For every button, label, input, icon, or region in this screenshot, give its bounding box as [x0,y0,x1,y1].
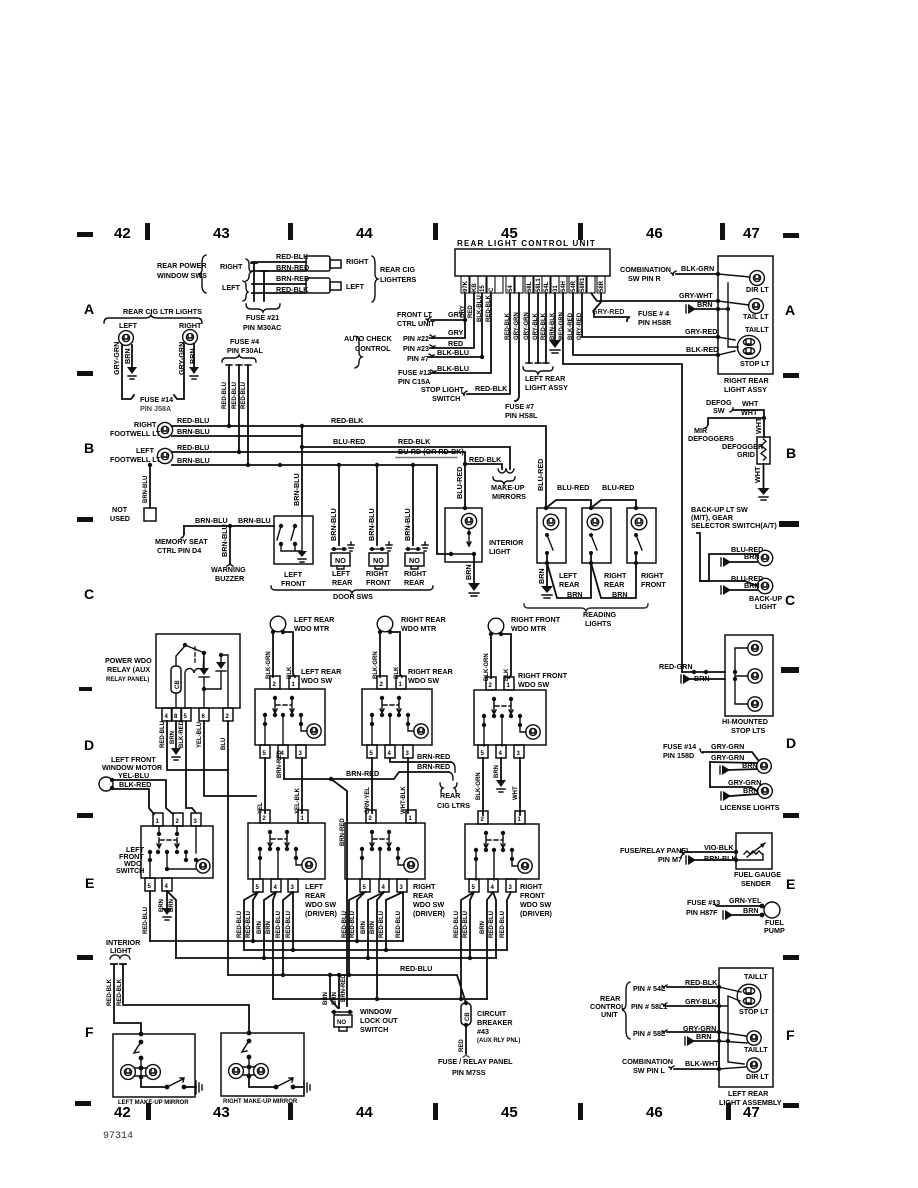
wire BRN-RED LR pin4 [283,758,285,779]
svg-text:46: 46 [646,225,663,242]
svg-text:LEFT MAKE-UP MIRROR: LEFT MAKE-UP MIRROR [118,1100,189,1106]
LEFT REAR WDO MTR [270,616,286,634]
LEFT FRONT door switch box [274,516,313,564]
buses [150,940,403,942]
inner bus [718,274,750,355]
svg-text:LEFT REAR: LEFT REAR [728,1089,769,1098]
svg-text:RED-BLU: RED-BLU [342,911,348,938]
wire BRN-BLK pin 31 to ground [554,293,556,340]
svg-text:RIGHT: RIGHT [413,882,436,891]
svg-text:BRN-BLU: BRN-BLU [367,508,376,541]
svg-text:BRN: BRN [266,921,272,934]
svg-text:47: 47 [743,225,760,242]
svg-text:BRN-BLU: BRN-BLU [292,473,301,506]
svg-text:SWITCH: SWITCH [432,394,460,403]
svg-text:CB: CB [465,1012,471,1021]
svg-text:FUSE #4: FUSE #4 [230,337,259,346]
svg-text:LEFT: LEFT [346,282,365,291]
relay CB [171,666,181,693]
svg-text:RED-BLU: RED-BLU [177,416,209,425]
door sw RIGHT REAR [412,465,414,545]
svg-text:BRN: BRN [697,300,713,309]
svg-text:WHT: WHT [513,786,519,800]
wire WHT RF [519,758,521,815]
svg-text:GRY-RED: GRY-RED [592,307,624,316]
branch to make-up mirrors hook2 [465,464,502,469]
wire BLK-RED pin 54R to right stop lt [573,293,718,355]
label REAR CIG LIGHTERS [372,256,378,302]
svg-text:58R: 58R [599,280,605,292]
HI-MOUNTED STOP LTS box [725,635,773,716]
svg-text:VIO-BLK: VIO-BLK [704,843,734,852]
svg-text:PIN J58A: PIN J58A [140,404,171,413]
DOOR SWS underbrace [271,586,433,593]
svg-text:WARNING: WARNING [211,565,246,574]
svg-text:BRN-BLU: BRN-BLU [329,508,338,541]
svg-text:PIN M30AC: PIN M30AC [243,323,281,332]
svg-text:RIGHT REAR: RIGHT REAR [724,376,770,385]
svg-text:REAR: REAR [332,578,353,587]
svg-text:SENDER: SENDER [741,879,772,888]
svg-text:BLK-RED: BLK-RED [119,780,151,789]
svg-text:PIN # 54L: PIN # 54L [633,984,666,993]
svg-text:COMBINATION: COMBINATION [620,265,671,274]
svg-text:STOP LT: STOP LT [739,1007,769,1016]
svg-text:C: C [489,287,495,292]
svg-text:FOOTWELL LT: FOOTWELL LT [110,455,161,464]
svg-text:DOOR SWS: DOOR SWS [333,592,373,601]
door sw RIGHT FRONT [376,465,378,545]
svg-text:BLK-GRN: BLK-GRN [476,772,482,800]
svg-text:FRONT: FRONT [281,579,306,588]
svg-text:YEL-BLU: YEL-BLU [118,771,149,780]
wire GRY-WHT pin to right assy [591,293,718,301]
svg-text:RED-BLU: RED-BLU [232,382,238,409]
svg-text:SW: SW [713,406,725,415]
svg-text:BRN: BRN [188,348,197,364]
LRd wires [244,892,258,950]
svg-text:RED-BLK: RED-BLK [107,978,113,1006]
svg-text:54L: 54L [544,281,550,292]
svg-text:RED-BLU: RED-BLU [222,382,228,409]
ground left cig lamp [127,367,137,374]
svg-text:BRN-RED: BRN-RED [346,769,379,778]
relay diode2 [204,655,228,708]
BRN connector to right assy [695,308,718,310]
svg-text:WDO SW: WDO SW [520,900,551,909]
wire WHT to ground [763,464,765,488]
svg-text:REAR POWER: REAR POWER [157,261,207,270]
svg-text:43: 43 [213,1104,230,1121]
svg-text:RED-BLU: RED-BLU [454,911,460,938]
svg-text:RED-BLU: RED-BLU [396,911,402,938]
svg-text:C: C [785,592,795,608]
drops to lockout [328,973,332,977]
wire RED to fuse relay panel [465,1025,467,1053]
svg-text:BLK: BLK [504,668,510,681]
wire LF pin4b to bus3 [167,891,176,958]
svg-text:GRY: GRY [448,328,464,337]
wire GRY to pin22 [430,320,465,338]
svg-text:BRN: BRN [612,590,628,599]
svg-text:D: D [84,737,94,753]
svg-text:RIGHT: RIGHT [404,569,427,578]
LEFT FRONT WDO SWITCH box [141,826,213,878]
svg-text:RIGHT: RIGHT [366,569,389,578]
svg-text:RED-BLU: RED-BLU [379,911,385,938]
wire BLK-GRN RF [482,758,484,815]
svg-text:LIGHTERS: LIGHTERS [380,275,417,284]
svg-text:RED-BLU: RED-BLU [400,964,432,973]
svg-text:RELAY (AUX: RELAY (AUX [107,665,150,674]
wire RED-BLK 1 [111,964,141,1034]
svg-text:DIR LT: DIR LT [746,285,769,294]
svg-text:54R: 54R [571,280,577,292]
svg-text:GRY-BLK: GRY-BLK [685,997,718,1006]
svg-text:STOP LIGHT: STOP LIGHT [421,385,464,394]
svg-text:BLK-RED: BLK-RED [686,345,718,354]
wire BLU relay pin2 [227,721,229,975]
wire GRN-YEL [371,758,373,813]
svg-text:SW PIN R: SW PIN R [628,274,662,283]
svg-text:RIGHT: RIGHT [520,882,543,891]
svg-text:BRN-BLK: BRN-BLK [704,854,738,863]
svg-text:WINDOW SWS: WINDOW SWS [157,271,207,280]
svg-text:BRN-BLU: BRN-BLU [195,516,228,525]
svg-text:LIGHT ASSY: LIGHT ASSY [525,383,568,392]
svg-text:BLK: BLK [394,666,400,679]
svg-text:DIR LT: DIR LT [746,1072,769,1081]
svg-text:MEMORY SEAT: MEMORY SEAT [155,537,208,546]
svg-text:58L1: 58L1 [536,278,542,292]
svg-text:LIGHT ASSY: LIGHT ASSY [724,385,767,394]
RIGHT REAR LIGHT ASSY box [718,256,773,374]
svg-text:BLK-GRN: BLK-GRN [373,651,379,679]
bottom ticks [146,1103,151,1120]
BRN-RED bus to rear cig ltrs [284,772,449,779]
svg-text:RED-BLU: RED-BLU [500,911,506,938]
wire RED-BLK pin 54 to stop light switch [467,293,510,394]
svg-text:(DRIVER): (DRIVER) [520,909,553,918]
svg-text:RED-BLU: RED-BLU [463,911,469,938]
svg-text:(DRIVER): (DRIVER) [305,909,338,918]
svg-text:RED-BLU: RED-BLU [160,721,166,748]
svg-text:BLK-RED: BLK-RED [179,720,185,748]
svg-text:RIGHT: RIGHT [604,571,627,580]
svg-text:GRY-WHT: GRY-WHT [679,291,713,300]
svg-text:WHT: WHT [741,408,758,417]
svg-text:SW PIN L: SW PIN L [633,1066,666,1075]
RIGHT FRONT WDO SW DRIVER box [465,824,539,879]
wire BRN interior ground [473,554,475,583]
svg-text:PIN #7: PIN #7 [407,354,429,363]
svg-text:RED-BLK: RED-BLK [276,252,309,261]
svg-text:RIGHT REAR: RIGHT REAR [408,667,454,676]
svg-text:BRN: BRN [696,1032,712,1041]
RFd wires [461,892,474,999]
wire BRN-BLU memory seat [184,525,274,527]
svg-text:MIRRORS: MIRRORS [492,492,526,501]
svg-text:GRY-RED: GRY-RED [685,327,717,336]
svg-text:BRN-BLU: BRN-BLU [177,456,210,465]
svg-text:WHT: WHT [753,466,762,483]
BRN link box1-box2 [547,563,591,598]
svg-text:NO: NO [335,556,346,565]
ground defogger [758,488,770,495]
svg-text:BU-RD (OR RD-BK): BU-RD (OR RD-BK) [398,447,464,456]
right cig lighter plug [306,256,330,271]
svg-text:READING: READING [583,610,617,619]
svg-text:PIN # 58L: PIN # 58L [633,1029,666,1038]
svg-text:FRONT: FRONT [641,580,666,589]
svg-text:PIN F30AL: PIN F30AL [227,346,264,355]
svg-text:BLK: BLK [287,666,293,679]
svg-text:F: F [786,1027,795,1043]
svg-text:BUZZER: BUZZER [215,574,245,583]
svg-text:BLU-RED: BLU-RED [602,483,634,492]
svg-text:REAR: REAR [305,891,326,900]
svg-text:STOP LT: STOP LT [740,359,770,368]
svg-text:WDO SW: WDO SW [413,900,444,909]
svg-text:BLU: BLU [221,738,227,750]
svg-text:TAILLT: TAILLT [744,972,768,981]
svg-text:RED-BLK: RED-BLK [331,416,364,425]
svg-text:FUEL GAUGE: FUEL GAUGE [734,870,781,879]
svg-text:BLU-RED: BLU-RED [536,459,545,491]
svg-text:BRN: BRN [567,590,583,599]
pin stubs [461,276,605,293]
wire GRY-RED pin 58R1 to right tail lt [582,293,718,337]
svg-text:RED-BLU: RED-BLU [177,443,209,452]
RIGHT REAR WDO MTR [377,616,393,634]
svg-text:WDO SW: WDO SW [301,676,332,685]
svg-text:54H: 54H [561,281,567,292]
left margin dashes [77,232,93,237]
svg-text:PIN M7SS: PIN M7SS [452,1068,486,1077]
svg-text:FUSE #14: FUSE #14 [140,395,173,404]
svg-text:E: E [85,875,94,891]
svg-text:E: E [786,876,795,892]
svg-text:RIGHT: RIGHT [220,262,243,271]
svg-text:45: 45 [501,1104,518,1121]
svg-text:PIN HS8L: PIN HS8L [505,411,538,420]
svg-text:RED-BLU: RED-BLU [276,911,282,938]
svg-text:SWITCH: SWITCH [116,866,144,875]
svg-text:LIGHT ASSEMBLY: LIGHT ASSEMBLY [719,1098,782,1107]
svg-text:SELECTOR SWITCH(A/T): SELECTOR SWITCH(A/T) [691,521,777,530]
RIGHT REAR WDO SW DRIVER box [345,823,425,879]
lamp TAIL LT [749,299,764,314]
DEFOGGER GRID [757,437,770,464]
svg-text:PIN #22: PIN #22 [403,334,429,343]
svg-text:FUSE #12: FUSE #12 [398,368,431,377]
svg-text:CONTROL: CONTROL [355,344,391,353]
RRd wires [349,892,365,975]
wire BLK-BLU pin 15 to pin7 [429,293,482,357]
svg-text:NO: NO [373,556,384,565]
wire pin19 to fuse7 [515,293,519,401]
svg-text:46: 46 [646,1104,663,1121]
svg-text:CB: CB [175,680,181,689]
svg-text:58R1: 58R1 [580,277,586,292]
svg-text:BRN: BRN [123,348,132,364]
svg-text:RIGHT: RIGHT [134,420,157,429]
svg-text:GRY-GRN: GRY-GRN [112,342,121,375]
svg-text:RIGHT: RIGHT [179,321,202,330]
svg-text:LIGHT: LIGHT [755,602,777,611]
svg-text:BRN: BRN [744,552,760,561]
svg-text:BRN: BRN [361,921,367,934]
svg-text:31: 31 [553,285,559,292]
lamp TAILLT F [747,1031,761,1045]
svg-text:B: B [84,440,94,456]
pin numbers [463,277,605,292]
rotated wire colour labels under pins [460,294,583,340]
svg-text:A: A [84,301,94,317]
wire LF pin5 to bus1 [149,891,151,941]
svg-text:MAKE-UP: MAKE-UP [491,483,525,492]
svg-text:RELAY PANEL): RELAY PANEL) [106,677,149,683]
SECTION F : LEFT REAR LIGHT ASSEMBLY [719,968,773,1087]
door sw LEFT REAR [338,465,340,545]
BRN link box2-box3 [591,563,636,598]
svg-text:LEFT: LEFT [136,446,155,455]
svg-text:RED-GRN: RED-GRN [559,312,565,340]
svg-text:BRN-BLU: BRN-BLU [220,524,229,557]
svg-text:GRY-GRN: GRY-GRN [711,742,744,751]
fuse 21 brace [246,304,280,312]
svg-text:LIGHT: LIGHT [110,946,132,955]
INTERIOR LIGHT box [445,508,482,562]
wire RED-BLK 2 [120,964,249,1033]
brace left rear light assy [523,367,553,374]
ground right cig lamp [189,367,199,374]
svg-text:RIGHT MAKE-UP MIRROR: RIGHT MAKE-UP MIRROR [223,1099,298,1105]
svg-text:RIGHT REAR: RIGHT REAR [401,615,447,624]
svg-text:LEFT: LEFT [119,321,138,330]
svg-text:RED-BLU: RED-BLU [489,911,495,938]
svg-text:REAR LIGHT CONTROL UNIT: REAR LIGHT CONTROL UNIT [457,239,596,248]
svg-text:RED-BLU: RED-BLU [241,382,247,409]
svg-text:GRY-GRN: GRY-GRN [711,753,744,762]
svg-text:PIN H87F: PIN H87F [686,908,718,917]
svg-text:BRN: BRN [743,906,759,915]
svg-text:REAR: REAR [604,580,625,589]
wire RED-GRN pin 54H long to hi-mounted [563,293,682,672]
svg-text:F: F [85,1024,94,1040]
svg-text:RED-BLU: RED-BLU [286,911,292,938]
LEFT MAKE-UP MIRROR box [113,1034,195,1097]
wire RED-BLU relay pin4 [167,721,228,770]
svg-text:BRN-BLU: BRN-BLU [403,508,412,541]
wire BRN-BLU down to NOT USED [149,465,151,508]
svg-text:TAIL LT: TAIL LT [743,312,769,321]
svg-text:WDO MTR: WDO MTR [511,624,547,633]
svg-text:44: 44 [356,225,373,242]
svg-text:YEL: YEL [258,802,264,814]
RIGHT MAKE-UP MIRROR box [221,1033,304,1096]
svg-text:LEFT: LEFT [559,571,578,580]
svg-text:REAR: REAR [440,791,461,800]
svg-text:BRN: BRN [170,731,176,744]
svg-text:A: A [785,302,795,318]
svg-text:C: C [84,586,94,602]
himount lamps [735,648,748,704]
fuse4 RED-BLU verticals [229,365,248,465]
svg-text:RIGHT: RIGHT [641,571,664,580]
top ticks [145,223,150,240]
svg-text:WDO SW: WDO SW [408,676,439,685]
svg-text:BLK-GRN: BLK-GRN [266,651,272,679]
svg-text:97K: 97K [463,280,469,292]
svg-text:BRN-RED: BRN-RED [417,752,450,761]
svg-text:PIN 158D: PIN 158D [663,751,694,760]
svg-text:SWITCH: SWITCH [360,1025,388,1034]
svg-text:B: B [786,445,796,461]
svg-text:LEFT: LEFT [284,570,303,579]
svg-text:RIGHT: RIGHT [346,257,369,266]
wire YEL-BLU relay pin6 [204,721,256,796]
brace [199,255,206,293]
svg-text:WDO SW: WDO SW [305,900,336,909]
READING LIGHTS underbrace [524,604,648,611]
svg-text:BRN-BLU: BRN-BLU [238,516,271,525]
BRN ground reading 1 [545,561,549,565]
svg-text:42: 42 [114,1104,131,1121]
svg-text:LEFT: LEFT [222,283,241,292]
svg-text:RED-BLU: RED-BLU [237,911,243,938]
svg-text:CTRL PIN D4: CTRL PIN D4 [157,546,201,555]
svg-text:RED-BLU: RED-BLU [143,907,149,934]
svg-text:NO: NO [337,1020,346,1026]
wire BRN-RED RR pin4 to rear cig ltrs [390,758,451,762]
svg-text:BRN: BRN [744,581,760,590]
svg-text:FRONT LT: FRONT LT [397,310,433,319]
wire RED-BLK pin C to fuse 12 [431,293,491,373]
svg-text:FUSE #21: FUSE #21 [246,313,279,322]
svg-text:LEFT: LEFT [332,569,351,578]
svg-text:GRID: GRID [737,450,755,459]
wire WHT-BLK [407,758,409,813]
ground pin31 [549,340,561,348]
wire YEL-BLK [301,758,303,813]
svg-text:WHT: WHT [742,399,759,408]
svg-text:BRN: BRN [370,921,376,934]
svg-text:RED: RED [448,339,463,348]
wire LF pin4 ground [166,891,168,908]
svg-text:FRONT: FRONT [366,578,391,587]
svg-text:CTRL UNIT: CTRL UNIT [397,319,435,328]
svg-text:FUSE #7: FUSE #7 [505,402,534,411]
svg-text:BRN-BLU: BRN-BLU [177,427,210,436]
wire BRN RF ground [500,758,502,780]
svg-text:BLU-RED: BLU-RED [455,467,464,499]
svg-text:USED: USED [110,514,130,523]
svg-text:RED: RED [459,1039,465,1052]
lamp DIR LT [750,271,765,286]
svg-text:NO: NO [409,556,420,565]
svg-text:LIGHTS: LIGHTS [585,619,612,628]
node junction GRY [463,318,467,322]
CIRCUIT BREAKER 43 [461,1003,471,1025]
svg-text:GRN-YEL: GRN-YEL [729,896,762,905]
wire BRN-BLU warning buzzer [229,526,231,562]
relay coil [185,653,204,708]
right margin dashes [783,233,799,238]
svg-text:BRN: BRN [323,992,329,1005]
wire RED pin KB to pin23 [430,293,474,348]
svg-text:FUSE # 4: FUSE # 4 [638,309,669,318]
